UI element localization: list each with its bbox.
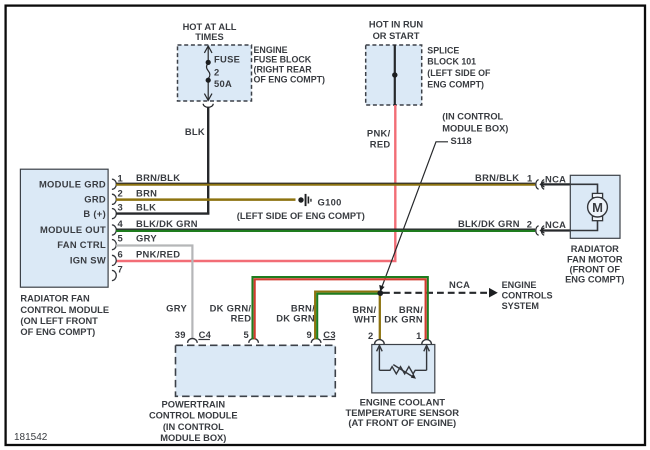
svg-text:BLK: BLK bbox=[136, 202, 156, 213]
svg-text:BRN: BRN bbox=[136, 187, 157, 198]
thermistor RT1 bbox=[377, 345, 430, 377]
wire DK GRN/RED pin5 to sensor pin1 bbox=[253, 277, 428, 340]
svg-text:9: 9 bbox=[306, 329, 312, 340]
svg-text:DK GRN: DK GRN bbox=[276, 313, 315, 324]
motor M1 circle bbox=[588, 197, 608, 217]
svg-text:NCA: NCA bbox=[545, 219, 566, 230]
svg-text:39: 39 bbox=[175, 329, 186, 340]
svg-text:PNK/: PNK/ bbox=[367, 128, 391, 139]
svg-text:RED: RED bbox=[231, 313, 252, 324]
svg-text:RED: RED bbox=[370, 138, 391, 149]
svg-text:NCA: NCA bbox=[545, 173, 566, 184]
svg-text:OF ENG COMPT): OF ENG COMPT) bbox=[20, 327, 95, 337]
pin 39 dome bbox=[188, 339, 198, 343]
svg-text:ENGINE: ENGINE bbox=[502, 280, 537, 290]
svg-text:3: 3 bbox=[118, 202, 124, 213]
svg-text:(FRONT OF: (FRONT OF bbox=[569, 265, 620, 275]
svg-text:PNK/RED: PNK/RED bbox=[136, 248, 180, 259]
sensor pin 2 dome bbox=[375, 340, 385, 344]
svg-text:FAN MOTOR: FAN MOTOR bbox=[567, 254, 623, 264]
wire BRN/WHT splice to sensor pin2 bbox=[379, 293, 381, 339]
svg-text:C4: C4 bbox=[199, 329, 212, 340]
svg-text:FAN CTRL: FAN CTRL bbox=[57, 239, 106, 250]
wire BLK pin3 bbox=[116, 212, 209, 214]
svg-text:HOT IN RUN: HOT IN RUN bbox=[369, 20, 424, 30]
wire BRN/DK GRN pin9 to splice S118 bbox=[315, 292, 380, 340]
svg-text:RADIATOR FAN: RADIATOR FAN bbox=[20, 294, 90, 304]
pin 5 dome bbox=[249, 339, 259, 343]
svg-text:OF ENG COMPT): OF ENG COMPT) bbox=[254, 74, 326, 84]
svg-text:SPLICE: SPLICE bbox=[427, 45, 459, 55]
svg-text:FUSE: FUSE bbox=[214, 53, 240, 64]
svg-text:TIMES: TIMES bbox=[195, 32, 223, 42]
svg-text:2: 2 bbox=[214, 66, 220, 77]
radiator fan control module box bbox=[20, 169, 108, 287]
svg-text:FUSE BLOCK: FUSE BLOCK bbox=[254, 55, 312, 65]
svg-text:IGN SW: IGN SW bbox=[70, 255, 106, 266]
svg-text:(LEFT SIDE OF ENG COMPT): (LEFT SIDE OF ENG COMPT) bbox=[237, 211, 365, 221]
svg-text:(LEFT SIDE OF: (LEFT SIDE OF bbox=[427, 68, 491, 78]
sensor pin 1 dome bbox=[422, 340, 432, 344]
svg-text:(AT FRONT OF ENGINE): (AT FRONT OF ENGINE) bbox=[348, 418, 456, 429]
svg-text:TEMPERATURE SENSOR: TEMPERATURE SENSOR bbox=[345, 408, 459, 419]
svg-text:DK GRN: DK GRN bbox=[384, 313, 423, 324]
fuse block F1 (ENGINE FUSE BLOCK) bbox=[178, 45, 252, 101]
wire BRN/BLK pin1 to motor bbox=[116, 183, 535, 185]
svg-text:S118: S118 bbox=[451, 136, 472, 146]
svg-text:BLK/DK GRN: BLK/DK GRN bbox=[136, 218, 198, 229]
svg-text:2: 2 bbox=[368, 330, 374, 341]
svg-text:C3: C3 bbox=[323, 329, 336, 340]
svg-text:CONTROLS: CONTROLS bbox=[502, 291, 553, 301]
connector arcs pins 1-7 bbox=[112, 179, 116, 281]
svg-text:ENG COMPT): ENG COMPT) bbox=[565, 275, 624, 285]
svg-text:HOT AT ALL: HOT AT ALL bbox=[183, 22, 237, 32]
pin 9 dome bbox=[311, 338, 321, 342]
svg-text:OR START: OR START bbox=[373, 31, 420, 41]
arrow to engine controls system bbox=[489, 288, 498, 298]
splice junction S118 bbox=[377, 290, 383, 296]
svg-text:(IN CONTROL: (IN CONTROL bbox=[163, 422, 224, 432]
svg-text:5: 5 bbox=[243, 329, 249, 340]
svg-text:181542: 181542 bbox=[14, 432, 48, 443]
svg-text:GRD: GRD bbox=[84, 194, 106, 205]
svg-text:5: 5 bbox=[118, 233, 124, 244]
connector cup below fuse block bbox=[203, 104, 213, 108]
svg-text:CONTROL MODULE: CONTROL MODULE bbox=[20, 305, 109, 315]
svg-text:1: 1 bbox=[416, 330, 422, 341]
svg-text:MODULE BOX): MODULE BOX) bbox=[442, 124, 508, 134]
svg-text:BRN/BLK: BRN/BLK bbox=[136, 172, 180, 183]
motor terminal top bbox=[592, 193, 602, 197]
wire BLK/DK GRN pin4 to motor bbox=[116, 230, 535, 232]
splice block SB101 bbox=[366, 45, 422, 105]
wire PNK/RED from splice block to module pin 6 bbox=[116, 105, 395, 261]
junction dot in splice block bbox=[392, 72, 397, 77]
wire NCA black to motor pin1 with arrow bbox=[541, 183, 571, 185]
motor pin1 connector arcs bbox=[536, 180, 544, 236]
svg-text:RADIATOR: RADIATOR bbox=[571, 244, 619, 254]
svg-text:(ON LEFT FRONT: (ON LEFT FRONT bbox=[20, 316, 98, 326]
svg-text:ENGINE COOLANT: ENGINE COOLANT bbox=[360, 397, 446, 408]
svg-text:GRY: GRY bbox=[136, 233, 157, 244]
svg-text:7: 7 bbox=[118, 264, 124, 275]
svg-text:BLK/DK GRN: BLK/DK GRN bbox=[458, 218, 520, 229]
svg-text:ENG COMPT): ENG COMPT) bbox=[427, 80, 484, 90]
svg-text:1: 1 bbox=[527, 172, 533, 183]
powertrain control module box bbox=[176, 345, 336, 396]
wire inside splice block bbox=[394, 45, 396, 105]
svg-text:6: 6 bbox=[118, 249, 124, 260]
svg-text:SYSTEM: SYSTEM bbox=[502, 301, 539, 311]
svg-text:POWERTRAIN: POWERTRAIN bbox=[162, 400, 226, 410]
svg-text:ENGINE: ENGINE bbox=[254, 45, 288, 55]
svg-text:M: M bbox=[592, 200, 603, 215]
svg-text:G100: G100 bbox=[318, 197, 342, 208]
motor M1 internal wiring bbox=[570, 184, 597, 230]
svg-text:BLK: BLK bbox=[185, 126, 205, 137]
svg-text:50A: 50A bbox=[214, 78, 232, 89]
wire NCA black to motor pin2 with arrow bbox=[541, 229, 571, 231]
leader line to splice S118 bbox=[382, 142, 448, 288]
svg-text:2: 2 bbox=[118, 187, 124, 198]
radiator fan motor box bbox=[570, 175, 620, 238]
svg-text:GRY: GRY bbox=[166, 303, 187, 314]
svg-text:(RIGHT REAR: (RIGHT REAR bbox=[254, 65, 313, 75]
ground G100 bbox=[298, 197, 303, 202]
svg-text:1: 1 bbox=[118, 172, 124, 183]
svg-text:NCA: NCA bbox=[449, 279, 470, 290]
motor terminal bottom bbox=[592, 216, 602, 220]
svg-text:WHT: WHT bbox=[354, 313, 376, 324]
svg-text:BRN/BLK: BRN/BLK bbox=[475, 172, 519, 183]
svg-text:4: 4 bbox=[118, 218, 124, 229]
wire BRN pin2 to G100 bbox=[116, 198, 296, 201]
svg-text:B (+): B (+) bbox=[83, 208, 106, 219]
engine coolant temperature sensor box bbox=[372, 345, 435, 393]
svg-text:MODULE OUT: MODULE OUT bbox=[40, 224, 106, 235]
svg-text:(IN CONTROL: (IN CONTROL bbox=[442, 111, 503, 121]
svg-text:MODULE BOX): MODULE BOX) bbox=[160, 433, 226, 443]
svg-text:BLOCK 101: BLOCK 101 bbox=[427, 57, 476, 67]
wire BLK vertical from fuse bbox=[207, 107, 209, 213]
dashed NCA wire to engine controls bbox=[383, 292, 488, 294]
fuse F1 symbol bbox=[204, 46, 212, 100]
svg-text:2: 2 bbox=[527, 218, 533, 229]
svg-text:CONTROL MODULE: CONTROL MODULE bbox=[149, 411, 238, 421]
wire GRY pin5 to PCM pin39 bbox=[116, 246, 192, 339]
svg-text:MODULE GRD: MODULE GRD bbox=[39, 178, 106, 189]
